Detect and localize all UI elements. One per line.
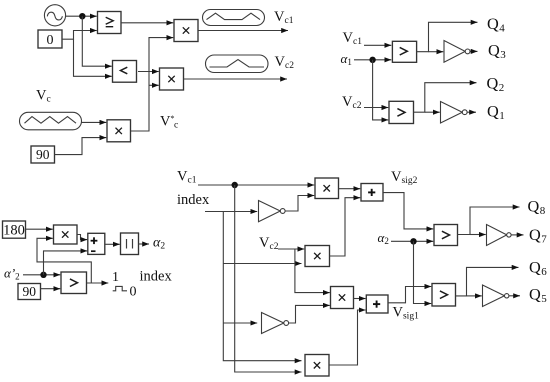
wire GT1 output to Q4: [416, 22, 478, 51]
svg-text:180: 180: [3, 223, 25, 239]
wire index to inverter N3: [205, 211, 257, 213]
wire GT4 output to inverter N5: [470, 234, 486, 236]
sine wave source: [44, 5, 65, 26]
wire N4 to M3 input2: [289, 305, 330, 323]
wire P4 to sum input plus: [77, 235, 87, 240]
wire M3 to sum S2 input1: [354, 298, 366, 300]
wire GT1 output to inverter N1: [429, 51, 444, 53]
wire Vc* vertical to P1 input2 and P2 input2: [131, 38, 174, 131]
wire Vc to product P3: [82, 121, 107, 123]
product P2 block: [160, 68, 184, 90]
wire N5 to Q7: [511, 234, 523, 236]
wire M2 to sum S1 input2: [330, 198, 361, 256]
wire GT2 output to inverter N2: [425, 111, 440, 113]
node alpha1 junction: [369, 57, 375, 63]
wire N3 to M1 input2: [285, 196, 314, 212]
wire Vc2 to product M2 input1: [278, 248, 304, 250]
svg-text:0: 0: [47, 33, 54, 48]
wire N6 to Q5: [509, 295, 520, 297]
product P4 block: [54, 225, 78, 244]
wire 180 to product P4: [26, 228, 53, 230]
source triangle wave Vc: [20, 112, 82, 130]
wire 0 to GE input2: [62, 31, 97, 40]
inverter N2: [441, 102, 468, 124]
wire GT5 output to inverter N6: [467, 295, 482, 297]
wire index branch to inverter N4: [223, 322, 257, 324]
constant 0 block: [38, 30, 62, 48]
svg-text:90: 90: [22, 284, 36, 299]
wire sine to GE input1: [66, 15, 97, 17]
inverter N4: [262, 313, 289, 334]
wire Vc1 to GT1 input1: [364, 44, 391, 46]
wire alpha'2 to GT3 input1: [23, 274, 60, 276]
constant 90 block (bottom): [18, 284, 41, 300]
wire GT2 output to Q2: [414, 83, 477, 113]
inverter N3: [259, 201, 286, 222]
svg-text:index: index: [177, 192, 210, 208]
wire N2 to Q1: [467, 111, 476, 113]
node alpha'2 junction: [40, 272, 46, 278]
relational operator GE block: [98, 12, 122, 34]
wire abs to alpha2: [139, 243, 150, 245]
node sine junction: [79, 13, 85, 19]
svg-text:0: 0: [130, 285, 137, 300]
wire index branch down: [223, 212, 301, 361]
wire Vc1 branch down to product M4 input2: [235, 185, 302, 372]
wire alpha2 branch to GT5 input2: [414, 241, 432, 303]
wire alpha'2 branch to sum minus: [44, 251, 88, 275]
sum block: [88, 233, 105, 254]
product M1 block: [315, 178, 339, 199]
relational operator GT3 block: [61, 272, 87, 294]
node alpha2 junction: [410, 238, 416, 244]
wire GT5 output to Q6: [456, 267, 519, 296]
svg-text:1: 1: [112, 270, 119, 285]
wire GT3 output index: [87, 282, 109, 284]
wire Vc* branch to P2 input2: [149, 84, 159, 86]
constant 90 block (top): [31, 146, 55, 163]
wire index branch to product M2 input2: [223, 263, 301, 265]
relational operator GT5 block: [432, 284, 456, 307]
relational operator GT2 block: [389, 101, 414, 123]
product M3 block: [331, 287, 354, 309]
scope waveform Vc1: [203, 10, 265, 26]
product M4 block: [305, 355, 329, 377]
sum S1 block: [361, 184, 383, 202]
product P3 block: [107, 120, 131, 142]
wire 90 to GT3 input2: [41, 288, 61, 290]
inverter N1: [444, 41, 470, 63]
step symbol: [113, 286, 127, 290]
wire M1 to sum S1: [339, 188, 361, 190]
scope waveform Vc2: [206, 55, 269, 73]
wire Vc1 to product M1: [198, 184, 314, 186]
wire alpha1 branch to GT2 input2: [373, 60, 389, 120]
wire 90 to P3 input2: [55, 138, 107, 155]
wire S2 output Vsig1 to GT5 input1: [388, 287, 431, 303]
wire alpha1 to GT1 input2: [354, 59, 391, 61]
relational operator GT4 block: [434, 225, 458, 246]
wire N1 to Q3: [470, 50, 478, 52]
relational operator GT1 block: [392, 41, 416, 62]
wire S1 output Vsig2 to GT4 input1: [383, 193, 433, 229]
wire GT4 output to Q8: [458, 207, 520, 235]
wire M4 to sum S2 input2: [329, 310, 366, 365]
relational operator LT block: [113, 61, 137, 83]
constant 180 block: [3, 221, 26, 239]
wire index feedback to P4 input2: [37, 238, 91, 283]
wire alpha2 to GT4 input2: [391, 240, 433, 242]
wire GE to product P1: [121, 22, 173, 24]
wire P2 output Vc2: [184, 78, 288, 80]
wire Vc2 to GT2 input1: [364, 107, 388, 109]
wire P1 output Vc1: [198, 30, 288, 32]
wire LT to product P2: [138, 71, 159, 73]
inverter N5: [487, 225, 512, 246]
wire 0 branch down to LT input2: [74, 39, 112, 76]
abs block: [121, 233, 139, 255]
wire Vc2 branch to product M3 input1: [295, 249, 330, 293]
node Vc1 junction: [232, 182, 238, 188]
svg-text:index: index: [140, 268, 173, 284]
wire sine branch down to LT input1: [82, 16, 112, 66]
product M2 block: [305, 246, 330, 267]
product P1 block: [174, 20, 198, 42]
sum S2 block: [366, 295, 388, 313]
svg-text:90: 90: [36, 147, 50, 162]
wire sum to abs: [106, 243, 120, 245]
inverter N6: [483, 285, 509, 307]
